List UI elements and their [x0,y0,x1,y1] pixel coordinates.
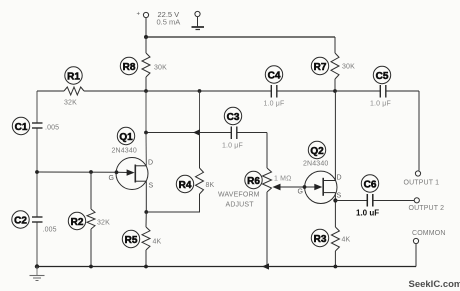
svg-text:R5: R5 [125,235,138,246]
wire source node to C6 [335,200,367,202]
wire top rail from supply to R7 [146,36,335,38]
C4 designator [265,66,282,83]
junction R3 bottom node [334,265,338,269]
svg-text:D: D [337,175,342,182]
power terminal + (22.5V) [143,12,148,37]
svg-text:R1: R1 [67,71,80,82]
ground (supply negative) [192,27,205,30]
capacitor C1 [32,123,43,128]
svg-text:.005: .005 [43,227,57,234]
ground symbol bottom left [30,267,45,281]
wire C5 to OUTPUT 1 [418,91,420,171]
svg-text:4K: 4K [153,239,162,246]
svg-text:C3: C3 [227,112,240,123]
terminal COMMON [413,238,418,243]
Q1 designator [117,127,134,144]
C1 designator [12,117,29,134]
svg-text:C6: C6 [364,179,377,190]
wire x=199.5 from rail91 down [199,91,201,133]
potentiometer R6 [263,133,272,267]
Q2 gate junction dot [303,185,307,189]
C6 designator [361,175,378,192]
terminal OUTPUT 2 [414,198,419,203]
wire C6 to OUTPUT 2 [373,200,414,202]
svg-text:+: + [137,12,141,18]
capacitor C2 [32,217,43,222]
svg-text:0.5 mA: 0.5 mA [157,18,181,27]
resistor R3 [331,227,339,267]
svg-text:1 MΩ: 1 MΩ [274,176,292,183]
svg-text:4K: 4K [342,237,351,244]
svg-text:2N4340: 2N4340 [112,148,137,155]
C2 designator [12,211,29,228]
R1 designator [65,67,82,84]
svg-text:2N4340: 2N4340 [303,161,328,168]
wire main horizontal rail y=91 [37,90,419,92]
svg-text:8K: 8K [206,182,215,189]
R8 designator [120,57,137,74]
svg-text:R7: R7 [314,62,327,73]
R3 designator [311,229,328,246]
svg-text:R2: R2 [71,217,84,228]
svg-text:COMMON: COMMON [412,230,446,237]
svg-text:32K: 32K [64,100,77,107]
svg-text:SeekIC.com: SeekIC.com [409,279,460,290]
R6 wiper arrow wire to Q2 gate [274,186,305,188]
R5 designator [122,230,139,247]
svg-text:R4: R4 [179,180,192,191]
svg-text:R3: R3 [314,234,327,245]
junction arrow node at 199.5,132.5 [193,129,200,136]
svg-text:1.0 μF: 1.0 μF [370,101,391,108]
Q1 gate arrowhead [127,169,135,175]
wire x=146 node91 to node132 [145,91,147,133]
wire Q1 drain from node132 [145,133,147,166]
capacitor C5 [380,85,386,98]
junction C2 bottom node [35,264,39,268]
C5 designator [373,66,390,83]
wire bottom ground rail [37,266,416,268]
R7 designator [311,57,328,74]
svg-text:S: S [149,183,154,190]
junction Q1 source node [144,210,148,214]
transistor Q1 2N4340 [116,158,148,190]
svg-text:1.0 uF: 1.0 uF [356,209,379,218]
svg-text:C1: C1 [15,122,28,133]
svg-text:1.0 μF: 1.0 μF [222,143,243,150]
svg-text:R8: R8 [123,62,136,73]
svg-text:C5: C5 [376,71,389,82]
svg-text:OUTPUT 2: OUTPUT 2 [409,205,445,212]
transistor Q2 2N4340 [305,171,337,203]
R2 designator [68,212,85,229]
svg-text:R6: R6 [247,176,260,187]
Q2 designator [308,141,325,158]
terminal OUTPUT 1 [415,171,420,176]
junction R2 top node [89,170,93,174]
wire Q2 source to C6 and down [334,193,336,227]
capacitor C6 [367,194,373,207]
resistor R4 [196,133,204,195]
svg-text:1.0 μF: 1.0 μF [264,101,285,108]
wire horizontal y=132.5 to C3 [146,132,267,134]
R6 designator [245,171,262,188]
wire Q2 drain from node 335,91 [334,91,336,181]
junction C1/C2/gate node [35,170,39,174]
junction R7 bottom / Q2 drain node [333,89,337,93]
svg-text:G: G [109,175,114,182]
svg-text:.005: .005 [45,125,59,132]
svg-text:Q2: Q2 [310,146,324,157]
junction node at 146,132.5 [144,131,148,135]
svg-text:Q1: Q1 [119,132,133,143]
wire source node to R4 bottom [146,194,199,212]
C3 designator [224,107,241,124]
svg-text:30K: 30K [154,65,167,72]
svg-text:30K: 30K [342,64,355,71]
junction R6 bottom node [262,263,269,269]
svg-text:C2: C2 [14,215,27,226]
resistor R8 [142,37,150,91]
resistor R7 [331,37,339,92]
junction R5 bottom node [144,265,148,269]
wire left vertical x=37 (C1/C2 branch) [36,91,38,267]
wire gate rail y=172 [37,171,117,173]
Q2 gate arrowhead [314,184,322,190]
capacitor C4 [271,85,277,98]
svg-text:ADJUST: ADJUST [226,202,255,209]
wire COMMON to bottom rail [415,244,417,267]
svg-text:G: G [298,189,303,196]
svg-text:32K: 32K [97,220,110,227]
capacitor C3 [231,127,237,140]
wire Q1 source down to node 212 [145,181,147,212]
resistor R1 [64,87,84,95]
resistor R2 [87,172,95,267]
junction R8/R1 node [144,89,148,93]
junction node at 199.5,91 [198,89,202,93]
resistor R5 [142,212,150,267]
svg-text:C4: C4 [268,70,281,81]
svg-text:D: D [148,160,153,167]
R4 designator [176,175,193,192]
svg-text:OUTPUT 1: OUTPUT 1 [404,180,440,187]
svg-text:S: S [337,193,342,200]
power terminal - (grounded) [195,11,200,26]
Q1 gate junction dot [115,170,119,174]
junction supply node [144,35,148,39]
junction R2 bottom node [89,265,93,269]
junction Q2 source node [333,198,337,202]
svg-text:WAVEFORM: WAVEFORM [218,192,260,199]
